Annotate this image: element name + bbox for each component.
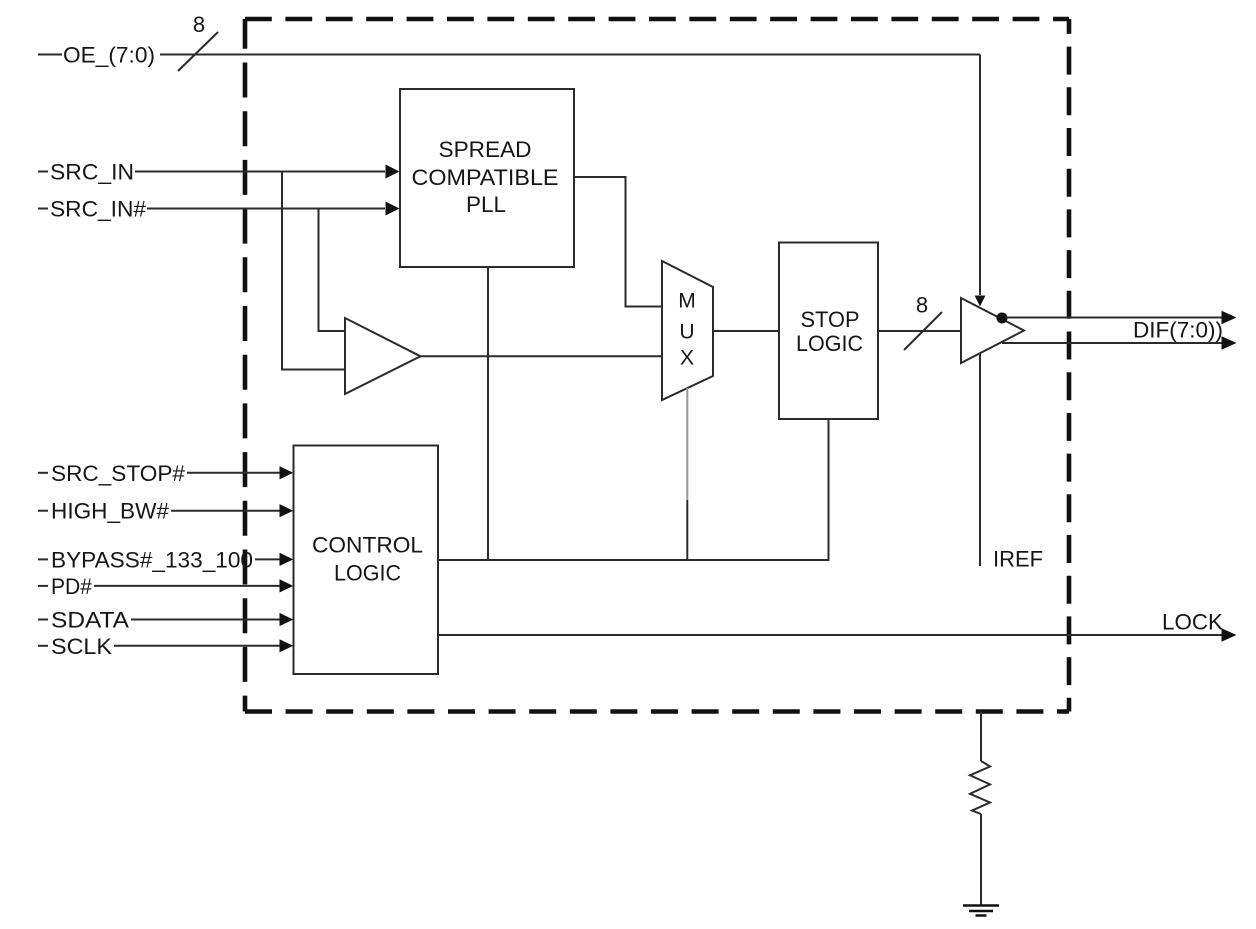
svg-text:COMPATIBLE: COMPATIBLE — [412, 165, 559, 190]
svg-text:SCLK: SCLK — [51, 634, 112, 659]
svg-text:IREF: IREF — [993, 547, 1043, 572]
svg-text:SRC_STOP#: SRC_STOP# — [51, 461, 186, 486]
svg-text:CONTROL: CONTROL — [312, 533, 423, 558]
svg-text:M: M — [678, 290, 696, 313]
svg-text:STOP: STOP — [801, 307, 860, 332]
svg-text:8: 8 — [916, 293, 928, 318]
svg-text:LOCK: LOCK — [1162, 610, 1223, 635]
svg-text:LOGIC: LOGIC — [796, 331, 863, 356]
svg-text:LOGIC: LOGIC — [334, 561, 401, 586]
svg-text:SRC_IN#: SRC_IN# — [50, 197, 147, 222]
svg-text:U: U — [679, 321, 694, 344]
svg-text:8: 8 — [193, 12, 205, 37]
svg-text:OE_(7:0): OE_(7:0) — [63, 43, 155, 68]
svg-text:BYPASS#_133_100: BYPASS#_133_100 — [51, 547, 253, 572]
svg-text:X: X — [680, 347, 694, 370]
svg-text:PD#: PD# — [51, 574, 93, 599]
svg-text:DIF(7:0)): DIF(7:0)) — [1133, 318, 1223, 343]
svg-text:HIGH_BW#: HIGH_BW# — [51, 499, 170, 524]
svg-text:PLL: PLL — [466, 192, 506, 217]
svg-text:SDATA: SDATA — [51, 608, 129, 633]
svg-text:SRC_IN: SRC_IN — [50, 160, 134, 185]
svg-text:SPREAD: SPREAD — [439, 137, 532, 162]
